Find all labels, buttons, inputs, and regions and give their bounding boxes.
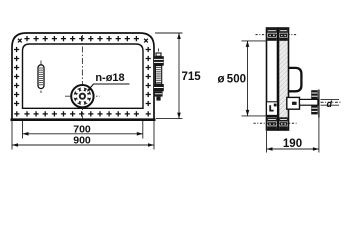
svg-text:190: 190 (283, 138, 302, 150)
hinge pin centerline (40, 61, 42, 94)
dim 715 extension top (155, 32, 183, 34)
handle (D-grip) (288, 68, 301, 91)
bottom bolt centerline (254, 122, 297, 124)
swing bolt lug block (side) (287, 97, 300, 109)
cover plate inner outline (23, 44, 144, 108)
edge swing bolt (front view) (153, 49, 163, 101)
dim d extension lines (321, 99, 340, 105)
svg-text:900: 900 (73, 135, 91, 147)
top bolt centerline (256, 34, 298, 36)
vertical centerline of cover (81, 35, 83, 119)
dim 190 line (267, 147, 319, 151)
top clamp bolts (section) (267, 29, 287, 41)
side view cover plate section (hatched) (279, 28, 289, 130)
hinge pin capsule (38, 65, 44, 89)
svg-text:n-ø18: n-ø18 (95, 72, 124, 84)
dim o500 extension top (242, 40, 267, 42)
dim o500 line (246, 41, 250, 116)
dim 715 extension bottom (156, 118, 183, 120)
svg-text:715: 715 (182, 71, 202, 83)
side view coaming flange bar (267, 28, 278, 130)
svg-text:d: d (327, 99, 333, 109)
latch detail box (267, 102, 278, 117)
svg-text:ø 500: ø 500 (217, 74, 246, 86)
cover plate outer outline (11, 33, 156, 120)
swing bolt pin (292, 102, 297, 105)
bolt keeper plate edge (318, 90, 320, 118)
bottom clamp bolts (section) (267, 117, 287, 129)
bolt marks bottom row (14, 111, 151, 116)
bolt marks right column (146, 47, 151, 106)
bolt marks left column (14, 47, 19, 106)
dim 900 line (12, 143, 154, 147)
wing nut lower (311, 105, 318, 114)
horizontal centerline of flange (65, 95, 100, 97)
dim 700 line (23, 132, 143, 136)
central bolt flange (n holes) (71, 85, 93, 107)
dim 190 extensions (267, 118, 319, 153)
dim 700 extensions (23, 121, 143, 139)
dim o500 extension bottom (242, 115, 267, 117)
dim 715 line (177, 33, 181, 119)
leader arrow n-o18 (87, 84, 130, 92)
swing bolt rod (side) (300, 99, 318, 105)
bolt marks top row (24, 36, 139, 41)
wing nut upper (311, 90, 318, 99)
bolt mark top-right corner (142, 37, 149, 44)
dim 900 extensions (12, 121, 154, 150)
bolt mark top-left corner (16, 37, 23, 44)
bolt centerline (side) (321, 101, 342, 103)
